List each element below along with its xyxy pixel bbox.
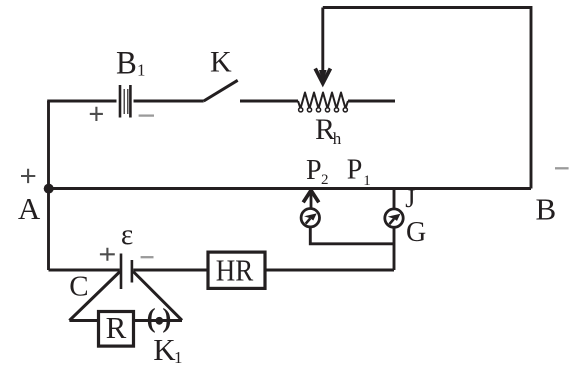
svg-text:G: G (406, 217, 426, 248)
svg-text:2: 2 (321, 172, 329, 188)
svg-text:R: R (106, 310, 127, 345)
svg-text:B: B (116, 46, 137, 82)
svg-text:P: P (347, 154, 363, 185)
svg-text:J: J (405, 184, 415, 213)
svg-text:1: 1 (363, 173, 371, 189)
svg-text:K: K (153, 332, 176, 367)
svg-text:): ) (162, 303, 171, 333)
svg-text:HR: HR (216, 253, 254, 288)
svg-text:1: 1 (137, 61, 146, 80)
svg-text:C: C (69, 270, 88, 302)
svg-text:ε: ε (121, 218, 133, 251)
svg-text:K: K (210, 46, 232, 79)
svg-text:B: B (536, 191, 557, 226)
svg-text:(: ( (147, 303, 156, 333)
svg-text:P: P (306, 155, 322, 186)
svg-text:1: 1 (174, 348, 183, 367)
svg-text:h: h (333, 129, 342, 148)
svg-text:A: A (18, 191, 41, 226)
